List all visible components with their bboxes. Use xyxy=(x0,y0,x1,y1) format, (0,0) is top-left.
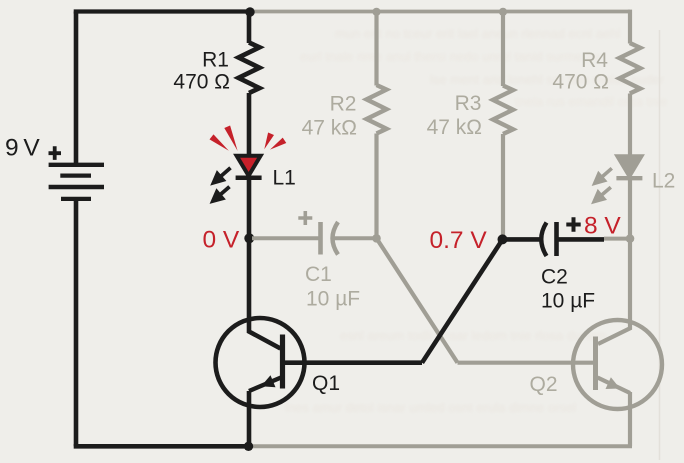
wire: R4 to LED L2 xyxy=(628,94,632,159)
wire: L2 cathode to +8 V node xyxy=(628,178,632,238)
resistor R3 xyxy=(493,86,513,135)
LED L1 emission arrows xyxy=(213,168,231,201)
svg-text:C1: C1 xyxy=(305,263,332,286)
wire: R2 junction diagonal to Q2 base xyxy=(377,238,458,362)
wire: 0.7 V node diagonal to Q1 base xyxy=(422,240,503,363)
svg-text:470 Ω: 470 Ω xyxy=(173,71,230,94)
capacitor C2 xyxy=(541,222,556,256)
svg-text:L1: L1 xyxy=(273,167,296,190)
wire: Q2 emitter down to bottom rail xyxy=(628,392,632,446)
node: +8 V junction xyxy=(626,234,635,243)
svg-text:eurl tnale rime anul thersi ne: eurl tnale rime anul thersi nedo unrel t… xyxy=(300,49,601,64)
wire: top rail black (battery to R1 node) xyxy=(74,9,250,13)
svg-text:470 Ω: 470 Ω xyxy=(552,71,609,94)
wire: R2 branch top xyxy=(374,12,378,86)
svg-text:0 V: 0 V xyxy=(203,227,240,254)
LED L2 emission arrows xyxy=(594,168,612,201)
wire: bottom rail black (battery to Q1 emitter node) xyxy=(74,444,249,449)
wire: 0 V node to C1 left plate xyxy=(252,236,320,240)
wire: right branch top (top rail corner to R4) xyxy=(628,10,632,44)
svg-text:R1: R1 xyxy=(202,49,229,72)
svg-text:Q2: Q2 xyxy=(530,373,558,396)
svg-text:9 V: 9 V xyxy=(5,134,40,161)
svg-text:L2: L2 xyxy=(652,170,675,193)
svg-text:47 kΩ: 47 kΩ xyxy=(302,117,357,140)
wire: Q1 base lead xyxy=(283,360,422,365)
wire: left rail top (battery + up to top rail) xyxy=(74,12,79,167)
C2 polarity + xyxy=(566,217,580,231)
svg-text:R2: R2 xyxy=(330,93,357,116)
node: top junction at R2 xyxy=(372,8,380,16)
Q2 emitter arrowhead xyxy=(606,377,621,389)
svg-text:8 V: 8 V xyxy=(584,213,621,240)
svg-text:C2: C2 xyxy=(541,266,568,289)
svg-text:10 µF: 10 µF xyxy=(541,290,595,313)
resistor R1 xyxy=(239,43,260,94)
node: C1/R2 junction xyxy=(372,234,381,243)
wire: +8 V node to Q2 collector xyxy=(598,239,630,344)
wire: 0.7 V node to C2 left plate xyxy=(503,237,543,242)
svg-text:esnl areum todli ensar ledom t: esnl areum todli ensar ledom tnie rlosa … xyxy=(340,328,607,343)
battery polarity + xyxy=(49,146,62,160)
resistor R4 xyxy=(619,43,640,94)
wire: R3 bottom to 0.7 V node xyxy=(501,134,505,238)
LED L1 light rays xyxy=(210,126,287,151)
svg-text:10 µF: 10 µF xyxy=(306,288,360,311)
svg-text:Q1: Q1 xyxy=(312,372,340,395)
wire: gray stub to +8 V node xyxy=(604,237,630,241)
resistor R2 xyxy=(367,85,387,134)
wire: top rail gray (R1 node to right branch) xyxy=(250,10,630,14)
LED L2 xyxy=(616,156,642,178)
capacitor C1 xyxy=(321,222,339,255)
svg-text:R3: R3 xyxy=(455,92,482,115)
svg-text:R4: R4 xyxy=(581,49,608,72)
svg-text:47 kΩ: 47 kΩ xyxy=(427,116,482,139)
C1 polarity + xyxy=(298,211,312,225)
node: bottom junction at Q1 emitter xyxy=(244,442,253,451)
battery B1 (9 V) xyxy=(49,165,104,199)
node: 0 V junction xyxy=(244,233,254,243)
node: top junction at R3 xyxy=(499,8,507,16)
wire: R2 bottom to C1 junction xyxy=(374,134,378,239)
svg-text:tnela rus emandil orsa tnie: tnela rus emandil orsa tnie xyxy=(515,94,667,109)
node: top junction at R1 xyxy=(245,7,254,16)
wire: C2 right plate (black segment) xyxy=(557,237,605,242)
svg-text:lnes amur detol isnar umled os: lnes amur detol isnar umled osnt erula d… xyxy=(285,400,576,415)
wire: Q1 emitter down to bottom rail xyxy=(247,391,252,446)
wire: R3 branch top xyxy=(501,12,505,87)
node: 0.7 V junction xyxy=(498,234,508,244)
wire: top rail to R1 xyxy=(247,12,252,44)
Q1 emitter arrowhead xyxy=(261,375,276,387)
transistor Q1 xyxy=(216,318,305,407)
wire: R1 to LED L1 xyxy=(247,93,252,158)
svg-text:0.7 V: 0.7 V xyxy=(430,227,488,254)
transistor Q2 xyxy=(573,320,662,409)
wire: C1 right plate to R2 junction xyxy=(333,236,377,240)
wire: bottom rail gray xyxy=(249,444,633,448)
wire: left rail bottom (battery - down to bottom rail) xyxy=(74,198,79,446)
LED L1 xyxy=(236,156,262,178)
wire: Q2 base lead xyxy=(458,361,596,365)
wire: L1 cathode through 0 V node to Q1 collector xyxy=(249,178,281,349)
